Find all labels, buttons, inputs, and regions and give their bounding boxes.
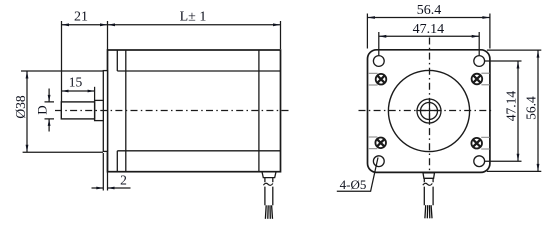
side view chamfer line bottom xyxy=(117,150,280,152)
arrowheads dim 47.14 right xyxy=(517,61,520,69)
shaft shoulder step (side view) xyxy=(95,100,104,120)
svg-text:21: 21 xyxy=(74,10,88,25)
lead wires (front view) xyxy=(425,205,432,218)
svg-text:Ø38: Ø38 xyxy=(13,95,28,118)
dimension line 56.4 top xyxy=(367,17,490,19)
dimension line 21 xyxy=(62,24,108,26)
cable bushing (front view) xyxy=(423,173,435,179)
dimension line D lower xyxy=(48,119,50,132)
arrowheads dim 56.4 right xyxy=(537,50,540,58)
dimension D extension lines xyxy=(45,102,55,119)
side view front flange inner edge xyxy=(125,50,127,172)
arrowheads dim 2 xyxy=(96,187,103,190)
mounting hole BR xyxy=(474,156,485,167)
dimension line O38 xyxy=(26,71,28,152)
dimension 56.4 top extension lines xyxy=(367,14,490,49)
dimension line 47.14 top xyxy=(379,35,479,37)
mounting hole BL xyxy=(373,156,384,167)
side view centerline axis xyxy=(55,110,291,112)
dimension 56.4 right extension lines xyxy=(487,50,541,171)
side view front end cap edge upper xyxy=(116,50,118,71)
front view horizontal centerline xyxy=(359,110,492,112)
dimension 2 extension lines xyxy=(103,153,107,191)
dimension line 15 xyxy=(62,90,95,92)
side view chamfer line top xyxy=(117,70,280,72)
mounting hole TL xyxy=(373,56,384,67)
side view motor body outline xyxy=(108,50,281,172)
dimension L extension line right xyxy=(280,21,282,49)
svg-text:47.14: 47.14 xyxy=(504,91,519,122)
dimension line 56.4 right xyxy=(537,50,539,171)
cable (front view) xyxy=(424,178,433,205)
dimension 47.14 top extension lines xyxy=(379,32,479,55)
assembly screw TL xyxy=(376,74,387,85)
shaft (side view) xyxy=(61,102,94,119)
leader line 4-O5 xyxy=(337,158,378,192)
cable bushing (side view) xyxy=(262,172,276,178)
cable break wave (side view) xyxy=(263,183,273,185)
svg-text:4-Ø5: 4-Ø5 xyxy=(340,177,367,192)
screw tangent lines TR xyxy=(481,73,489,85)
cable (side view) xyxy=(265,178,273,206)
dimension 21 extension line left xyxy=(61,21,63,102)
side view rear end cap edge xyxy=(258,50,260,172)
pilot boss circle (front view) xyxy=(388,70,469,151)
svg-text:15: 15 xyxy=(69,75,83,90)
lead wires (side view) xyxy=(265,205,272,219)
screw tangent lines BL xyxy=(368,137,377,149)
svg-text:2: 2 xyxy=(120,173,127,188)
dimension 15 extension line right xyxy=(94,87,96,100)
screw tangent lines BR xyxy=(481,137,489,149)
screw tangent lines TL xyxy=(368,73,378,85)
shaft center cross xyxy=(416,98,441,123)
arrowheads dim 15 xyxy=(62,90,69,93)
svg-text:L± 1: L± 1 xyxy=(180,10,207,25)
dimension O38 extension line bottom xyxy=(23,151,103,153)
dimension O38 extension line top xyxy=(21,70,103,72)
front view square flange xyxy=(368,50,490,173)
dimension line D upper xyxy=(48,89,50,102)
pilot boss (side view) xyxy=(103,71,107,152)
mounting hole TR xyxy=(474,56,485,67)
svg-text:D: D xyxy=(35,105,50,114)
dimension 21/L shared extension line xyxy=(107,21,109,50)
svg-text:56.4: 56.4 xyxy=(524,96,539,120)
svg-text:47.14: 47.14 xyxy=(413,22,445,37)
assembly screw BL xyxy=(375,138,386,149)
arrowheads dim 56.4 top xyxy=(367,16,375,19)
assembly screw BR xyxy=(471,138,482,149)
arrowheads dim O38 xyxy=(26,71,29,79)
arrowheads dim D xyxy=(48,95,51,102)
assembly screw TR xyxy=(472,74,483,85)
dimension line L xyxy=(108,24,281,26)
arrowheads dim L xyxy=(108,23,116,26)
arrowheads dim 47.14 top xyxy=(379,35,387,38)
dimension 47.14 right extension lines xyxy=(485,61,522,161)
front view vertical centerline xyxy=(429,38,431,178)
cable break wave (front view) xyxy=(423,183,433,185)
arrowheads dim 21 xyxy=(62,23,70,26)
dimension line 47.14 right xyxy=(517,61,519,161)
side view front end cap edge lower xyxy=(116,151,118,172)
shaft hub circle (front view) xyxy=(417,99,441,123)
dimension line 2 xyxy=(92,187,131,189)
svg-text:56.4: 56.4 xyxy=(417,3,442,18)
shaft circle (front view) xyxy=(421,103,438,120)
